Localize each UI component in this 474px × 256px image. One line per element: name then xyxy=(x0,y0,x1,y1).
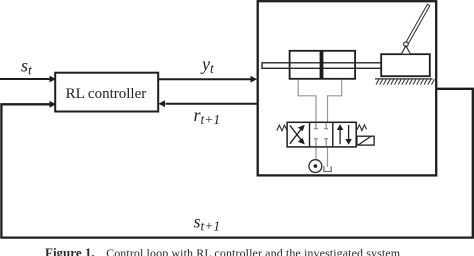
system boundary box xyxy=(258,1,437,175)
ground line under mass xyxy=(375,78,433,80)
mass block xyxy=(381,54,430,76)
tank symbol xyxy=(324,166,331,171)
lever pivot joint xyxy=(401,42,410,54)
piston xyxy=(320,51,324,79)
valve V1 body xyxy=(287,122,356,147)
node label s_t xyxy=(21,56,33,78)
solenoid actuator xyxy=(357,136,374,145)
node label s_t+1 xyxy=(194,212,221,234)
wire s_t+1 feedback loop xyxy=(1,89,472,238)
pipe from cylinder right chamber to valve port B xyxy=(328,79,342,123)
wire r_t+1 from system to controller xyxy=(159,100,258,107)
pipe from valve port T to tank xyxy=(327,147,329,167)
lever arm xyxy=(405,4,430,46)
right return spring xyxy=(357,125,367,131)
valve right cell parallel-flow arrows xyxy=(337,124,352,145)
svg-text:RL controller: RL controller xyxy=(66,86,147,102)
RL controller block U1 xyxy=(55,73,158,112)
node label y_t xyxy=(200,54,215,76)
piston rod xyxy=(262,63,382,69)
pipe from valve port P to pump xyxy=(315,147,317,160)
ground hatching xyxy=(376,79,435,84)
hydraulic cylinder body xyxy=(290,51,356,79)
left return spring xyxy=(277,125,287,131)
valve centre cell blocked ports xyxy=(314,123,328,147)
pump P1 xyxy=(309,160,322,173)
node label r_t+1 xyxy=(194,105,221,127)
valve left cell crossed-flow arrows xyxy=(290,125,305,145)
pipe from cylinder left chamber to valve port A xyxy=(298,79,316,123)
caption text xyxy=(45,245,401,256)
wire s_t input arrow xyxy=(0,76,56,83)
wire y_t from controller to system xyxy=(159,76,258,83)
